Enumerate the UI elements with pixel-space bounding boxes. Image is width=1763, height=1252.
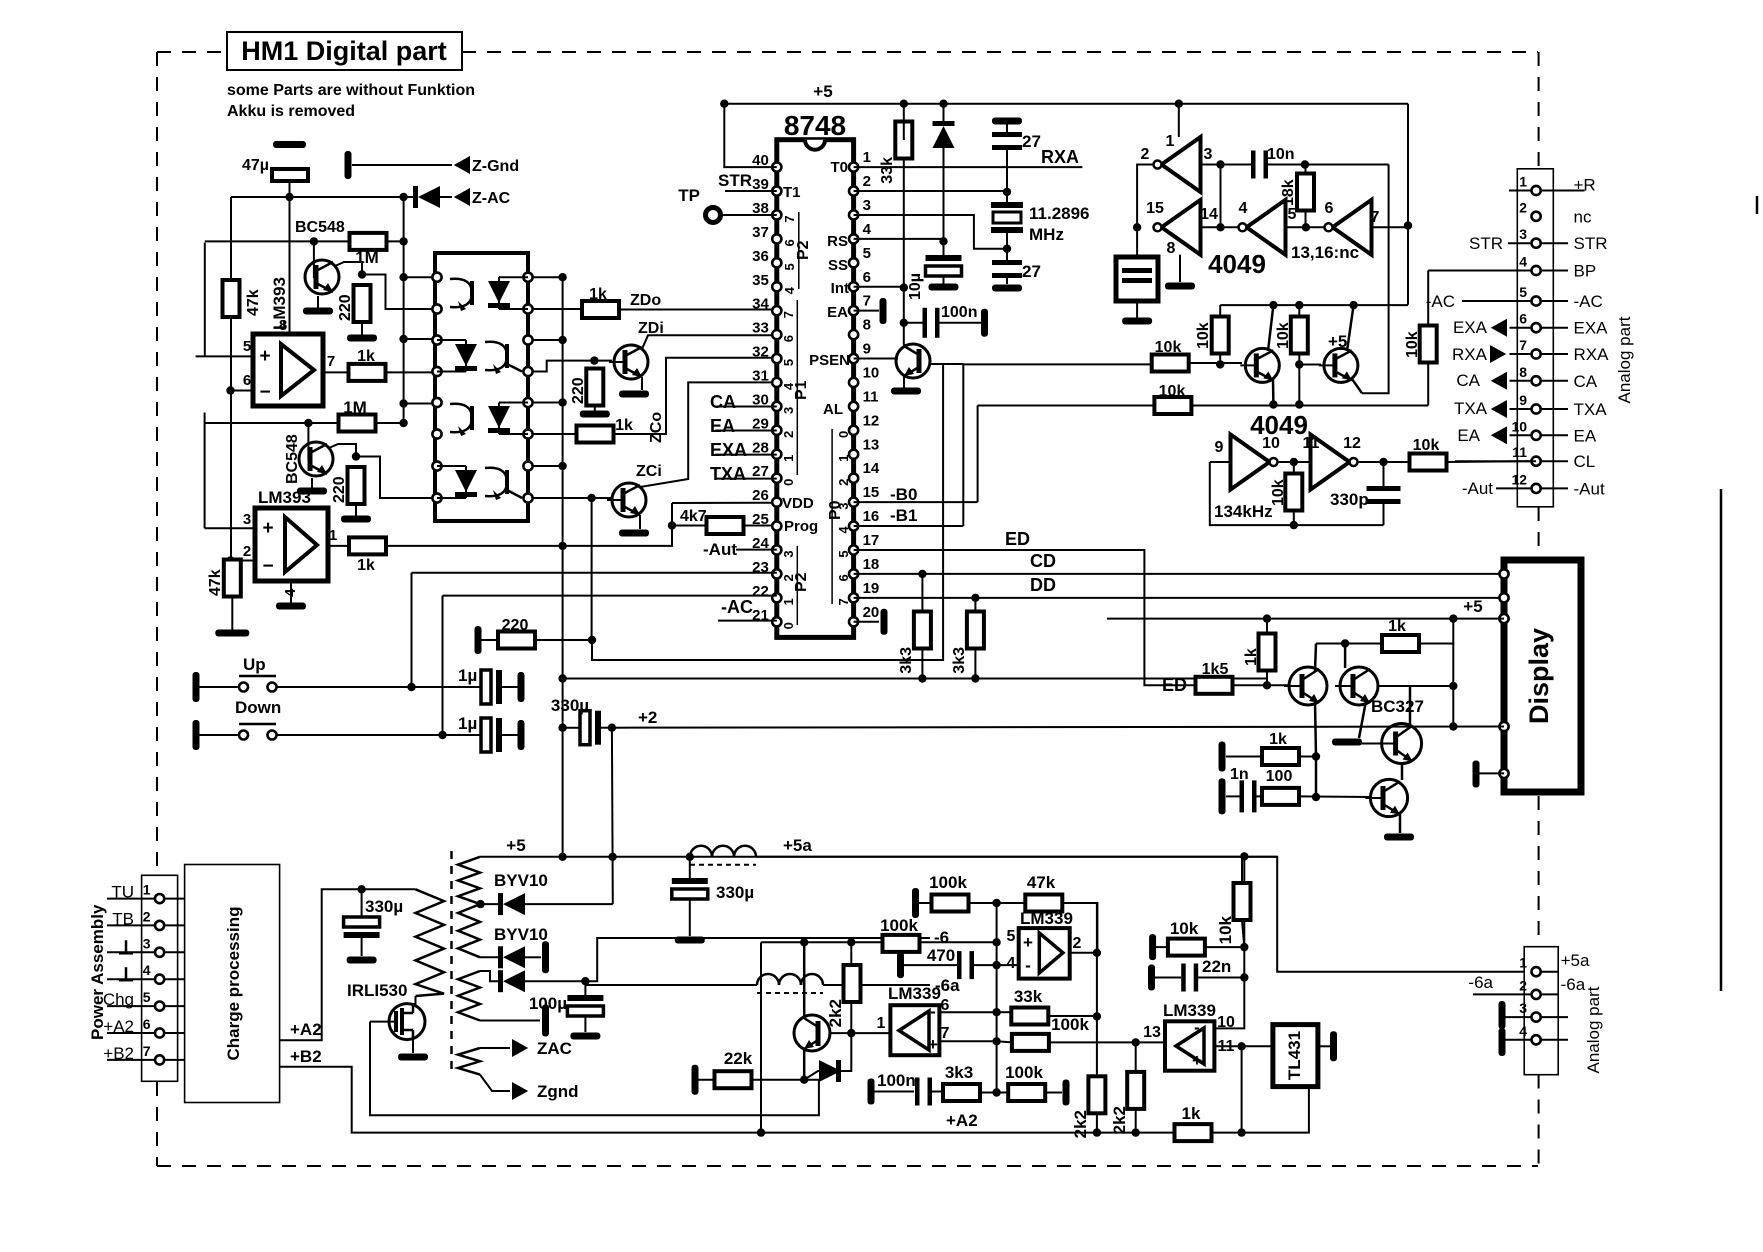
wire x612 down	[611, 728, 614, 904]
svg-text:+5: +5	[813, 82, 832, 101]
wire 1k5h left	[1226, 756, 1262, 758]
J1 pin 8	[1519, 364, 1540, 386]
svg-text:+B2: +B2	[290, 1047, 322, 1066]
wire 470 lead	[903, 964, 957, 966]
8748 pin 26	[752, 487, 781, 507]
J1 pin 3	[1519, 226, 1540, 248]
svg-text:220: 220	[570, 377, 587, 404]
P2 bit 6	[782, 239, 797, 246]
svg-text:3k3: 3k3	[898, 647, 915, 674]
svg-text:16: 16	[863, 508, 880, 525]
8748 pin 19	[849, 580, 879, 603]
svg-text:31: 31	[752, 367, 769, 384]
resistor R 10k-5v	[1216, 883, 1251, 944]
wire 220-1 bottom	[361, 321, 363, 336]
wire 47k col down	[230, 316, 232, 561]
wire bus main	[562, 277, 564, 857]
svg-text:33k: 33k	[1014, 987, 1043, 1006]
resistor R 10k-2v	[1275, 317, 1308, 354]
junction 220-2 top	[352, 452, 360, 460]
wire QA coll	[1315, 644, 1316, 672]
8748 pin 9	[849, 341, 871, 364]
wire 470 right	[974, 964, 1019, 966]
svg-text:2: 2	[1519, 977, 1527, 993]
resistor R 10k-5h	[1410, 437, 1447, 471]
LM339-C pin13 label	[1143, 1024, 1161, 1041]
resistor R 10k-4h	[1168, 919, 1205, 956]
Display pin y618	[1499, 614, 1508, 623]
svg-text:EA: EA	[1574, 426, 1597, 445]
svg-text:+: +	[259, 346, 270, 367]
wire pin5 node up	[996, 903, 998, 942]
junction QB coll	[1341, 639, 1349, 647]
wire 33k2 row	[997, 1011, 1012, 1013]
wire +2 row	[612, 727, 1504, 728]
LM339-A pin4 label	[1007, 955, 1016, 972]
wire pin6 row	[940, 1011, 997, 1013]
junction Up riser	[407, 683, 415, 691]
wire 2k2-2 stems	[1096, 1075, 1098, 1077]
8748 pin 16	[849, 508, 879, 531]
terminal bar 1k5h	[1219, 742, 1226, 772]
wire LM393-1 out	[323, 371, 349, 373]
svg-text:1: 1	[1519, 174, 1527, 190]
svg-text:35: 35	[752, 272, 769, 289]
label TXA	[710, 464, 777, 484]
junction 18k bottom	[1302, 223, 1310, 231]
svg-text:15: 15	[863, 484, 880, 501]
IC LM393-2 box	[255, 508, 328, 581]
junction 33k2	[1093, 1012, 1101, 1020]
wire 22n lead	[1154, 977, 1181, 979]
svg-text:100: 100	[1266, 768, 1293, 785]
svg-text:13: 13	[1143, 1024, 1161, 1041]
wire +B2 out	[280, 1067, 1175, 1133]
terminal bar QB emit	[1332, 739, 1362, 746]
wire ZDi emitter	[641, 377, 643, 390]
wire QPSEN base row	[930, 363, 963, 365]
opto pin L4	[432, 367, 441, 376]
junction 100k3/13	[1132, 1038, 1140, 1046]
junction 3k3-1 rail	[918, 674, 926, 682]
junction 1M left / base	[310, 237, 318, 245]
terminal bar LM393-2 gnd	[276, 603, 306, 610]
TL431 label	[1285, 1031, 1304, 1080]
LM393-1 minus	[259, 382, 270, 403]
wire 33k2 right	[1048, 1015, 1097, 1017]
terminal bar QD emit	[1384, 834, 1414, 841]
svg-text:Display: Display	[1524, 628, 1554, 724]
wire opto R7 to bus	[533, 465, 563, 467]
svg-text:-: -	[1025, 956, 1031, 975]
8748 Prog label	[784, 518, 818, 535]
8748 pin 28	[752, 439, 781, 459]
J1 wire CL	[1455, 460, 1568, 462]
wire 330u2 stem	[361, 889, 363, 917]
inverter U1d	[1325, 200, 1372, 255]
8748 pin 15	[849, 484, 879, 507]
svg-text:1µ: 1µ	[458, 666, 477, 685]
terminal bar byv2	[542, 941, 549, 973]
svg-text:10: 10	[1262, 435, 1280, 452]
opto pin R8	[523, 493, 532, 502]
junction y726	[1449, 722, 1457, 730]
svg-text:6: 6	[143, 1016, 151, 1032]
J1 wire STR	[1469, 234, 1568, 253]
wire 1k5 to node	[1233, 684, 1289, 686]
svg-text:-AC: -AC	[1574, 292, 1603, 311]
label ZCo	[648, 412, 665, 443]
resistor R 3k3-2	[951, 612, 984, 674]
wire 1k4 right	[1419, 619, 1454, 644]
svg-text:RXA: RXA	[1041, 147, 1079, 167]
transistor ZCi	[607, 463, 662, 517]
wire 22k right	[752, 1079, 819, 1081]
terminal bar 470	[897, 952, 904, 978]
wire y305 rail	[1220, 304, 1408, 306]
wire sec1 top to +5	[480, 856, 1277, 858]
opto pin R2	[523, 304, 532, 313]
wire ZAC	[480, 1047, 510, 1049]
svg-text:330µ: 330µ	[551, 696, 589, 715]
junction bus y678	[558, 674, 566, 682]
wire diode row	[804, 1071, 820, 1080]
svg-text:BYV10: BYV10	[494, 871, 548, 890]
junction 220-1 top	[358, 270, 366, 278]
svg-text:330µ: 330µ	[365, 897, 403, 916]
svg-text:EA: EA	[827, 304, 848, 321]
wire 100u bottom	[584, 1016, 586, 1032]
artifact tick topright	[1756, 196, 1759, 214]
P1 bracket	[793, 300, 810, 475]
wire 1M-2 row	[205, 422, 404, 424]
svg-text:3: 3	[836, 503, 851, 510]
label -B1	[854, 506, 964, 526]
svg-text:47k: 47k	[1027, 873, 1056, 892]
svg-text:8748: 8748	[784, 110, 846, 141]
svg-text:10k: 10k	[1195, 322, 1212, 349]
wire 10k4h lead	[1155, 946, 1170, 948]
wire 220-4 row	[481, 639, 498, 641]
wire 1k-2 out	[386, 545, 563, 547]
wire 330u3 stem	[689, 857, 691, 878]
wire 22n right	[1198, 977, 1244, 979]
resonator	[1116, 227, 1158, 318]
svg-text:+: +	[1192, 1051, 1202, 1070]
svg-text:11: 11	[1303, 435, 1320, 452]
wire opto R6 to ZCo	[533, 433, 577, 435]
wire display stub	[1479, 772, 1504, 774]
resistor R 1k ZCo	[577, 417, 634, 443]
resistor R 220-1	[337, 285, 371, 322]
LM339-C plus	[1192, 1051, 1202, 1070]
dashed border right mid	[1538, 507, 1540, 557]
label 4049 upper	[1208, 249, 1266, 279]
Display pin y773	[1499, 769, 1508, 778]
J3 pin4 stub	[1499, 1028, 1569, 1056]
wire 100k3 left	[997, 1041, 1012, 1042]
label -Aut pin24	[703, 540, 777, 559]
wire 1M row	[205, 240, 404, 242]
svg-text:RXA: RXA	[1574, 345, 1610, 364]
svg-text:-6: -6	[934, 928, 949, 947]
svg-text:330p: 330p	[1330, 490, 1369, 509]
svg-text:2k2: 2k2	[1110, 1106, 1129, 1134]
wire osc in	[1210, 461, 1231, 463]
label -AC pin21	[718, 597, 777, 621]
wire sec3 bottom	[480, 1020, 540, 1022]
svg-text:+2: +2	[638, 708, 657, 727]
svg-text:1: 1	[836, 455, 851, 462]
svg-text:10k: 10k	[1216, 915, 1235, 944]
wire 330u1 right	[598, 727, 612, 729]
P1 bit 6	[781, 335, 796, 342]
P0 bit 2	[836, 479, 851, 486]
J1 pin 2	[1519, 199, 1540, 221]
P2l bit 1	[781, 598, 796, 605]
svg-text:2k2: 2k2	[826, 999, 845, 1027]
label Analog part 2	[1584, 986, 1603, 1073]
svg-text:6: 6	[782, 239, 797, 246]
resistor R 33k-2	[1011, 987, 1048, 1025]
svg-text:47µ: 47µ	[242, 157, 269, 174]
wire opto R5 to bus	[533, 402, 563, 404]
8748 pin 32	[752, 344, 781, 364]
svg-text:TXA: TXA	[1574, 400, 1608, 419]
svg-text:LM339: LM339	[888, 984, 941, 1003]
svg-text:0: 0	[781, 479, 796, 486]
wire inv2 in	[1201, 226, 1239, 228]
wire LM393-2 out	[328, 545, 350, 547]
junction 47kcol pin6	[226, 386, 234, 394]
wire 100 right	[1299, 795, 1371, 798]
svg-text:10k: 10k	[1413, 437, 1440, 454]
J1 label -AC	[1574, 292, 1603, 311]
svg-text:ZDo: ZDo	[630, 292, 661, 309]
junction x591/220row	[588, 636, 596, 644]
svg-text:11: 11	[1512, 444, 1527, 460]
J2 wire 6	[107, 1032, 185, 1034]
label +B2 out	[290, 1047, 322, 1066]
wire BP riser	[1427, 271, 1429, 328]
transformer sec1	[458, 857, 480, 904]
svg-text:7: 7	[863, 293, 871, 310]
svg-text:1: 1	[329, 527, 337, 544]
label CD	[1030, 551, 1056, 571]
wire 3-14 vert	[1220, 165, 1222, 228]
display stub bar	[1473, 761, 1480, 788]
J1 label EXA	[1574, 319, 1609, 338]
wire opto R3 to bus	[533, 339, 563, 341]
svg-text:IRLI530: IRLI530	[347, 981, 407, 1000]
svg-text:EXA: EXA	[1574, 319, 1609, 338]
svg-text:STR: STR	[718, 171, 752, 190]
svg-text:27: 27	[1022, 132, 1041, 151]
junction bus r5	[558, 398, 566, 406]
svg-text:3: 3	[1204, 146, 1213, 163]
svg-text:8: 8	[1519, 364, 1527, 380]
svg-text:9: 9	[863, 341, 871, 358]
wire 10u bottom	[943, 276, 945, 284]
wire Int row	[854, 286, 904, 288]
junction bus r1	[558, 273, 566, 281]
junction Down riser	[438, 731, 446, 739]
junction 2k2-3 +A2	[1132, 1128, 1140, 1136]
wire 330u2 bottom	[361, 938, 363, 956]
svg-text:4: 4	[781, 382, 796, 390]
svg-text:SS: SS	[828, 257, 848, 274]
P1 bit 4	[781, 382, 796, 390]
svg-text:Prog: Prog	[784, 518, 818, 535]
junction crystal bottom	[1003, 245, 1011, 253]
resistor R 1k-6h	[1175, 1104, 1212, 1141]
J1 label nc	[1574, 207, 1592, 226]
dashed border right display	[1538, 796, 1540, 946]
wire riser 686-726	[1452, 644, 1454, 727]
LM339-B pin7 label	[941, 1025, 950, 1042]
terminal bar 4049 pin8	[1165, 283, 1195, 290]
wire 1u-2 link	[500, 734, 518, 736]
J1 pin 7	[1519, 337, 1540, 359]
wire Z-Gnd	[352, 164, 452, 166]
wire 100u stem	[584, 981, 586, 995]
wire BC327 emit riser	[1409, 686, 1412, 725]
svg-text:+5: +5	[1463, 597, 1482, 616]
svg-text:+: +	[928, 1035, 938, 1054]
dashed border bottom	[157, 1165, 1538, 1167]
inverter U2b	[1311, 435, 1358, 490]
junction rail2 a	[1269, 400, 1277, 408]
svg-text:CL: CL	[1574, 452, 1596, 471]
svg-text:5: 5	[143, 989, 151, 1005]
title box	[227, 32, 462, 70]
svg-text:19: 19	[863, 580, 880, 597]
svg-text:5: 5	[781, 359, 796, 366]
wire drain	[413, 996, 416, 1004]
label ED	[1005, 529, 1030, 549]
LM339-C pin11 label	[1218, 1038, 1235, 1055]
J2 label +B2	[103, 1044, 134, 1063]
svg-text:100k: 100k	[1051, 1015, 1089, 1034]
resistor R 47k-2	[207, 560, 241, 597]
svg-text:11.2896: 11.2896	[1029, 204, 1090, 223]
svg-text:P2: P2	[795, 240, 812, 260]
8748 pin 29	[752, 415, 781, 435]
inverter U1c	[1239, 200, 1286, 255]
J2 label +A2	[103, 1017, 134, 1036]
junction ZCi base/x591	[587, 494, 595, 502]
wire to 10n	[1221, 164, 1252, 166]
svg-text:10µ: 10µ	[907, 273, 924, 300]
wire opto R4 to ZDi	[533, 361, 612, 372]
arrow Z-AC	[454, 188, 511, 207]
svg-text:Charge processing: Charge processing	[224, 907, 243, 1061]
wire 100n2 right	[932, 1091, 945, 1093]
wire 1u-1 link	[500, 686, 518, 688]
J1 label TXA	[1574, 400, 1608, 419]
IC LM339-B box	[890, 1005, 939, 1055]
svg-text:6: 6	[781, 335, 796, 342]
wire 10k2v stems	[1298, 305, 1300, 317]
junction 3k3-2 top	[971, 594, 979, 602]
8748 RS label	[827, 233, 848, 250]
J1 pin 10	[1512, 418, 1541, 440]
P2 lower bracket	[793, 546, 810, 625]
wire 10k1v stem	[1219, 305, 1221, 317]
svg-text:Up: Up	[243, 655, 266, 674]
P0 bit 6	[836, 574, 851, 581]
label -B0	[854, 485, 978, 504]
svg-text:9: 9	[1519, 392, 1527, 408]
svg-text:20: 20	[863, 604, 880, 621]
wire 10k5v stems	[1241, 856, 1243, 883]
svg-text:T0: T0	[830, 159, 848, 176]
wire opto pin5 lead	[404, 403, 432, 405]
terminal bar BC548-2 emitter	[297, 488, 327, 495]
svg-text:15: 15	[1146, 200, 1164, 217]
svg-text:TXA: TXA	[1454, 399, 1488, 418]
8748 T1 label	[783, 184, 801, 201]
svg-text:26: 26	[752, 487, 769, 504]
terminal bar 100n-2	[868, 1079, 875, 1105]
terminal bar resonator	[1122, 318, 1152, 325]
P0 bit 4	[836, 526, 851, 534]
svg-text:-6a: -6a	[1561, 975, 1586, 994]
svg-text:10k: 10k	[1155, 339, 1182, 356]
wire 100n right	[938, 322, 981, 324]
transistor Q-drv	[794, 1015, 830, 1051]
wire BC548-2 collector	[329, 444, 356, 457]
wire pin7 row	[940, 1040, 997, 1042]
wire QPSEN emitter	[903, 376, 905, 388]
wire x769 vert	[760, 942, 762, 1132]
wire pin20 stub	[854, 621, 879, 623]
junction x403/opto5	[399, 399, 407, 407]
terminal bar EA	[880, 298, 887, 324]
junction 18k top	[1301, 160, 1309, 168]
svg-text:4: 4	[782, 286, 797, 294]
junction 47u/row	[285, 193, 293, 201]
opto pin R7	[523, 461, 532, 470]
svg-text:47k: 47k	[207, 569, 224, 596]
diode Z-AC	[413, 186, 440, 208]
junction osc out	[1379, 458, 1387, 466]
P0 bracket	[827, 429, 844, 604]
label RXA	[1041, 147, 1079, 167]
wire x943 branch	[592, 364, 943, 660]
terminal bar 330u2	[347, 957, 377, 964]
Display label	[1524, 628, 1554, 724]
wire 2k2-3 bottom	[1135, 1109, 1137, 1133]
LM339-B triangle	[899, 1011, 929, 1050]
transformer primary	[416, 889, 445, 996]
label 1316nc	[1291, 243, 1359, 262]
wire pin3 vert	[204, 413, 206, 529]
opto diode 2	[437, 340, 477, 372]
opto pin R1	[523, 273, 532, 282]
svg-text:MHz: MHz	[1029, 225, 1064, 244]
capacitor 1u-2	[458, 714, 525, 752]
J2 pin 3	[143, 935, 164, 957]
junction x403/opto3	[399, 335, 407, 343]
8748 pin 2	[849, 173, 871, 196]
wire 10k5v bottom	[1242, 920, 1244, 947]
svg-text:22: 22	[752, 583, 769, 600]
wire QB coll	[1344, 644, 1347, 669]
resistor R 220-3	[570, 369, 603, 406]
wire PSEN row	[854, 358, 898, 360]
label STR	[718, 171, 752, 190]
